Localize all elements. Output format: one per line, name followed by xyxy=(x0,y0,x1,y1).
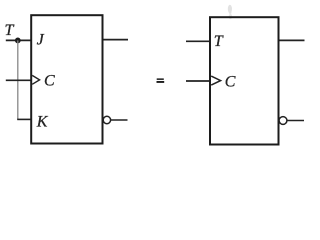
svg-text:T: T xyxy=(5,22,15,39)
wire K input horizontal xyxy=(17,118,30,120)
wire clock input C (left) xyxy=(6,79,31,81)
wire T input (right) xyxy=(186,40,210,42)
svg-text:C: C xyxy=(44,73,55,90)
wire output Q (left) xyxy=(104,39,129,41)
inversion bubble Q' (left) xyxy=(103,116,110,123)
wire T input (left) xyxy=(6,39,31,41)
wire output Q (right) xyxy=(280,39,305,41)
flip-flop U2 body (T) xyxy=(210,17,279,144)
wire feedback vertical from T node to K xyxy=(17,40,19,119)
node T junction dot xyxy=(15,38,21,44)
svg-text:K: K xyxy=(36,113,49,130)
wire clock input C (right) xyxy=(186,80,210,82)
svg-text:T: T xyxy=(214,33,224,50)
flip-flop U1 body (JK) xyxy=(31,15,102,143)
inversion bubble Q' (right) xyxy=(279,117,287,125)
wire output Q' (left) xyxy=(111,119,128,121)
svg-text:J: J xyxy=(37,31,45,48)
clock edge triangle U1 xyxy=(32,75,39,84)
clock edge triangle U2 xyxy=(211,76,220,85)
svg-text:C: C xyxy=(225,74,236,91)
wire output Q' (right) xyxy=(287,120,304,122)
equals sign xyxy=(157,78,165,83)
